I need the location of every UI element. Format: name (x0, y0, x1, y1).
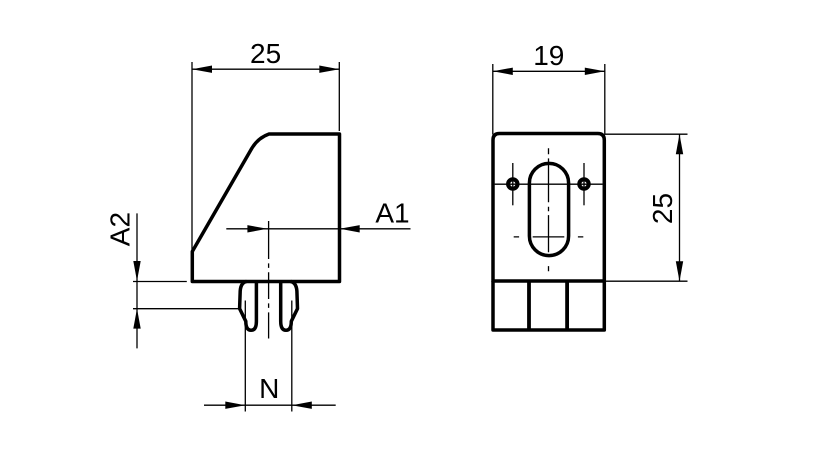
right view: vertical center line (dash-dot) (548, 148, 550, 271)
right view: band divider right (565, 281, 569, 330)
dimension 19: right arrow (585, 68, 605, 75)
dimension 25 right: down arrow (676, 261, 683, 281)
dimension 25 top: right arrow (319, 66, 339, 73)
right view: horizontal center line through holes (495, 183, 603, 185)
svg-text:25: 25 (647, 193, 678, 224)
svg-text:25: 25 (250, 38, 281, 69)
right view: lower band outline (493, 281, 604, 330)
dimension 19: extension lines (493, 64, 605, 135)
dimension A2: dimension line segments with arrows (136, 213, 138, 348)
dimension 19: dimension line (493, 70, 605, 72)
svg-text:19: 19 (533, 40, 564, 71)
dimension A1: left arrow (247, 225, 267, 232)
right view: band divider left (527, 281, 531, 330)
dimension A2: down arrow (133, 261, 140, 281)
dimension N: extension lines (245, 301, 291, 412)
dimension A1: right arrow (340, 225, 360, 232)
dimension A2: extension lines (133, 282, 239, 309)
right view: slot (stadium hole) (529, 163, 568, 255)
left view: right snap prong (281, 282, 298, 331)
left view: body outline (192, 134, 339, 282)
dimension 25 right: up arrow (676, 134, 683, 154)
dimension 19: left arrow (493, 68, 513, 75)
dimension 25 top: dimension line (192, 68, 339, 70)
right view: right small hole (579, 179, 588, 188)
dimension 25 top: extension lines (192, 62, 339, 253)
dimension 25 right: extension lines (605, 134, 688, 281)
right view: main face outline (493, 134, 604, 282)
dimension A2: up arrow (133, 309, 140, 329)
right view: left small hole (508, 179, 517, 188)
dimension A1: line (226, 228, 410, 230)
svg-text:A2: A2 (105, 212, 136, 246)
right view: bottom arc center line (dash-dot) (514, 236, 584, 238)
dimension N: dimension line segments (204, 404, 336, 406)
left view: left snap prong (240, 282, 257, 331)
dimension N: left arrow (225, 402, 245, 409)
dimension 25 right: dimension line (679, 134, 681, 281)
svg-text:A1: A1 (375, 197, 409, 228)
left view: vertical center line (dash-dot) (268, 221, 270, 339)
right view: center line through right hole (583, 163, 585, 205)
dimension 25 top: left arrow (192, 66, 212, 73)
dimension N: right arrow (292, 402, 312, 409)
right view: center line through left hole (512, 163, 514, 205)
svg-text:N: N (259, 373, 279, 404)
